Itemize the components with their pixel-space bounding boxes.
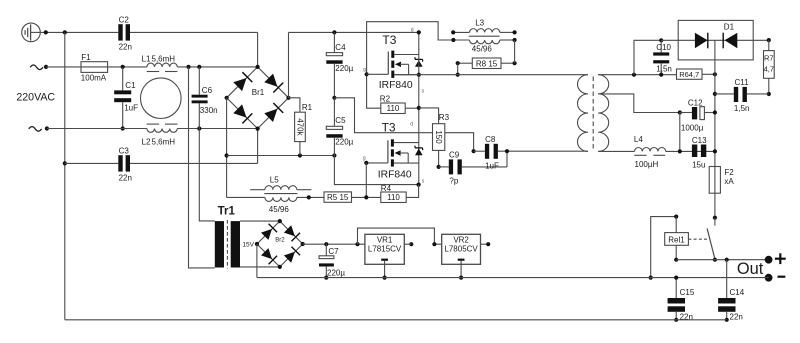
svg-text:F2: F2 [724, 168, 734, 177]
wire [418, 32, 420, 184]
node Br1 right [286, 96, 290, 100]
voltage regulator VR2 [442, 234, 481, 264]
wire [702, 73, 715, 75]
node sec-top [632, 73, 636, 77]
wire [514, 40, 516, 63]
svg-text:?p: ?p [449, 176, 458, 185]
inductor L5 upper [250, 189, 265, 191]
node C1 bottom [121, 126, 125, 130]
wire [227, 196, 265, 198]
svg-text:C6: C6 [202, 86, 213, 95]
node C10 top [659, 38, 663, 42]
svg-text:C12: C12 [688, 98, 703, 107]
svg-text:T3: T3 [382, 33, 396, 47]
relay Rel1 [675, 217, 677, 233]
wire [297, 196, 324, 198]
wire [130, 31, 258, 33]
wire [666, 150, 715, 152]
wire [65, 162, 119, 164]
node gate1 [365, 72, 369, 76]
wire [352, 196, 381, 198]
wire [634, 40, 661, 74]
node C7 top [324, 242, 328, 246]
wire [240, 220, 280, 222]
node C15 top [674, 276, 678, 280]
wire [256, 244, 258, 278]
transistor T3 lower source lead [394, 162, 419, 164]
node L3 low-right [513, 38, 517, 42]
node C13 left [678, 149, 682, 153]
svg-text:F1: F1 [81, 53, 91, 62]
node VR2 out [486, 242, 490, 246]
earth terminal [22, 23, 41, 42]
svg-text:C2: C2 [119, 16, 130, 25]
svg-text:L7805CV: L7805CV [444, 245, 478, 254]
wire [676, 259, 768, 261]
node R5-R4 [364, 195, 368, 199]
svg-text:C13: C13 [692, 136, 707, 145]
node R8 right [513, 61, 517, 65]
wire [303, 243, 365, 245]
diode Br2 NW [261, 229, 272, 240]
AC input terminal 2 [29, 127, 42, 132]
inductor L5 lower [265, 197, 297, 201]
svg-text:IRF840: IRF840 [378, 170, 412, 181]
node C7 bottom [324, 276, 328, 280]
node C14 top [725, 258, 729, 262]
inductor L4 [635, 147, 666, 151]
inductor L3 core [469, 35, 500, 37]
svg-text:VR1: VR1 [377, 235, 393, 244]
node L3 up-right [513, 30, 517, 34]
node half-bridge cap midpoint [332, 96, 336, 100]
node C12 right [713, 110, 717, 114]
node switch top [713, 216, 717, 220]
fuse F2 [709, 167, 720, 194]
diode D1a [695, 33, 708, 49]
node VR1 out [409, 242, 413, 246]
transistor T3 lower arrow [395, 150, 401, 155]
wire [365, 163, 367, 198]
wire [65, 319, 727, 321]
transistor T3 upper arrow [395, 62, 401, 67]
svg-text:L2: L2 [142, 138, 151, 147]
resistor R7 [768, 40, 770, 51]
node source2 [417, 183, 421, 187]
capacitor C4 [333, 32, 335, 52]
node L3 up-left [451, 30, 455, 34]
node VR1 gnd [383, 276, 387, 280]
svg-text:C5: C5 [335, 116, 346, 125]
svg-text:Out: Out [737, 260, 764, 278]
wire [257, 129, 259, 164]
svg-text:R64,7: R64,7 [679, 70, 699, 79]
diode Br1 NW [233, 78, 246, 91]
transformer core [592, 77, 594, 151]
capacitor C2 [118, 24, 122, 40]
svg-text:22n: 22n [119, 42, 132, 51]
svg-text:L1: L1 [142, 55, 151, 64]
bridge rectifier Br1 frame [227, 67, 289, 129]
svg-text:C7: C7 [328, 247, 339, 256]
inductor L2 [147, 129, 177, 133]
wire [462, 166, 507, 168]
svg-text:T3: T3 [382, 120, 396, 134]
transistor T3 upper drain lead [394, 54, 419, 56]
node R7 bottom [767, 92, 771, 96]
node C11 left [713, 92, 717, 96]
wire [481, 243, 489, 245]
node C4 top [332, 30, 336, 34]
node Rel1 bottom [674, 258, 678, 262]
svg-text:D1: D1 [724, 23, 735, 32]
node gate2 [364, 161, 368, 165]
wire [288, 32, 290, 97]
output terminal minus [765, 274, 773, 282]
node L3 low-left [451, 38, 455, 42]
node Br2 top [278, 219, 282, 223]
svg-text:R3: R3 [439, 113, 450, 122]
wire [227, 155, 335, 157]
diode Br1 NE [264, 74, 277, 87]
svg-text:C11: C11 [735, 78, 750, 87]
wire [506, 151, 508, 167]
svg-text:g: g [363, 67, 366, 73]
svg-text:Tr1: Tr1 [218, 206, 236, 218]
capacitor C9 [449, 159, 453, 174]
svg-text:VR2: VR2 [453, 235, 469, 244]
svg-text:L7815CV: L7815CV [368, 245, 402, 254]
node minus-tap [225, 153, 229, 157]
fuse F1 [81, 62, 108, 73]
svg-text:220µ: 220µ [335, 64, 353, 73]
svg-text:d: d [410, 121, 413, 127]
wire [64, 32, 66, 319]
transistor T3 upper channel [391, 51, 394, 58]
wire [199, 129, 215, 221]
wire [747, 93, 769, 95]
node VR2 gnd [459, 276, 463, 280]
svg-text:22n: 22n [119, 173, 132, 182]
resistor R5 [324, 192, 352, 202]
diode Br2 NE [284, 225, 295, 236]
wire [358, 228, 442, 244]
svg-text:L4: L4 [634, 135, 643, 144]
svg-text:110: 110 [387, 193, 400, 202]
node C12 left [678, 110, 682, 114]
node Br1 bottom [256, 127, 260, 131]
inductor L3 upper [453, 31, 469, 33]
svg-text:100µH: 100µH [635, 160, 659, 169]
node C15 bottom [674, 318, 678, 322]
wire [661, 39, 695, 41]
choke core [141, 78, 182, 119]
capacitor C5 [333, 98, 335, 127]
node source1 [417, 73, 421, 77]
svg-text:15V: 15V [242, 242, 254, 249]
node VR1 in [355, 242, 359, 246]
inductor L1 [147, 63, 177, 67]
node C5 minus [332, 153, 336, 157]
svg-text:R5 15: R5 15 [327, 193, 349, 202]
svg-text:1,5n: 1,5n [734, 104, 750, 113]
wire [474, 150, 485, 152]
node Br2 right [301, 242, 305, 246]
node C10 bottom [659, 73, 663, 77]
capacitor C7 [325, 244, 327, 256]
wire [334, 138, 418, 185]
transistor T3 lower channel [391, 139, 394, 146]
capacitor C13 [692, 145, 697, 158]
voltage regulator VR1 [365, 234, 404, 264]
svg-text:220µ: 220µ [327, 268, 345, 277]
svg-text:1uF: 1uF [124, 104, 138, 113]
AC input terminal 1 [30, 65, 43, 70]
wire [289, 31, 419, 33]
transformer Tr1 [215, 221, 224, 267]
body diode upper [415, 58, 423, 60]
capacitor C3 [118, 155, 122, 171]
wire [40, 31, 118, 33]
diode D1b [725, 33, 738, 49]
svg-text:1000µ: 1000µ [681, 124, 704, 133]
capacitor C10 [660, 40, 662, 52]
svg-text:470k: 470k [295, 118, 304, 136]
transistor T3 lower gate [366, 162, 388, 164]
wire [715, 93, 734, 95]
wire [226, 98, 228, 198]
svg-text:Rel1: Rel1 [668, 235, 685, 244]
capacitor C12 [692, 107, 697, 119]
transformer primary [578, 75, 589, 152]
wire [498, 150, 588, 152]
svg-text:C3: C3 [119, 147, 130, 156]
transistor T3 upper gate [367, 73, 389, 75]
svg-text:330n: 330n [200, 106, 218, 115]
wire [679, 113, 681, 152]
node C6 top [197, 65, 201, 69]
wire [257, 277, 769, 279]
capacitor C15 [675, 278, 677, 298]
wire [177, 128, 257, 130]
node C13 right [713, 149, 717, 153]
svg-text:R2: R2 [380, 95, 391, 104]
svg-text:45/96: 45/96 [472, 44, 493, 53]
node rail-Rel1 [649, 276, 653, 280]
resistor R1 [289, 98, 300, 112]
transistor T3 upper source lead [394, 74, 419, 76]
switch blade [714, 218, 716, 226]
node R1 bottom [298, 153, 302, 157]
svg-text:C1: C1 [125, 81, 136, 90]
node R8 left [456, 61, 460, 65]
node C14 bottom [725, 318, 729, 322]
svg-text:C8: C8 [485, 135, 496, 144]
svg-text:L3: L3 [475, 19, 484, 28]
capacitor C8 [485, 144, 489, 159]
wire [501, 62, 515, 64]
svg-text:R7: R7 [764, 54, 774, 63]
svg-text:220µ: 220µ [335, 138, 353, 147]
svg-text:C10: C10 [656, 43, 671, 52]
resistor R3 [419, 108, 439, 124]
svg-text:C9: C9 [449, 151, 460, 160]
wire [240, 266, 280, 268]
node earth-down [63, 161, 67, 165]
diode Br2 SE [284, 252, 295, 263]
svg-text:110: 110 [387, 104, 400, 113]
svg-text:45/96: 45/96 [269, 205, 290, 214]
svg-text:Br2: Br2 [275, 237, 285, 243]
node R6 right [713, 72, 717, 76]
node Rel1 top [674, 215, 678, 219]
dual diode D1 box [678, 20, 753, 60]
inductor L5 core [264, 193, 297, 195]
node top-left junction [63, 30, 67, 34]
node switch bottom [713, 258, 717, 262]
wire [189, 67, 215, 268]
svg-text:C14: C14 [730, 288, 745, 297]
node Br1 left [225, 96, 229, 100]
node R3 bottom [437, 165, 441, 169]
svg-text:d: d [411, 27, 414, 33]
wire [651, 217, 677, 278]
wire [598, 74, 676, 76]
node Br2 left [255, 242, 259, 246]
diode Br1 SW [233, 104, 246, 117]
wire [695, 39, 769, 41]
wire [404, 243, 411, 245]
capacitor C1 [122, 67, 124, 91]
wire [457, 63, 459, 74]
svg-text:R1: R1 [302, 103, 313, 112]
bridge rectifier Br2 frame [257, 221, 303, 267]
svg-text:100mA: 100mA [81, 74, 107, 83]
transistor T3 lower drain lead [394, 142, 419, 144]
node Br1 top [256, 65, 260, 69]
capacitor C6 [198, 67, 200, 95]
svg-text:IRF840: IRF840 [379, 80, 413, 91]
node rail-R8 [456, 73, 460, 77]
node C8 right [505, 149, 509, 153]
wire [47, 128, 147, 130]
node VR2 in [432, 242, 436, 246]
node C1 top [121, 65, 125, 69]
svg-text:Br1: Br1 [252, 88, 265, 97]
wire [334, 98, 473, 151]
wire [177, 66, 257, 68]
svg-text:R8 15: R8 15 [476, 59, 498, 68]
capacitor C14 [726, 260, 728, 298]
svg-text:4,7: 4,7 [764, 65, 774, 74]
svg-text:C4: C4 [335, 43, 346, 52]
svg-text:g: g [363, 155, 366, 161]
svg-text:xA: xA [724, 177, 734, 186]
node L1 out [186, 65, 190, 69]
wire [458, 62, 473, 64]
node L5 out [307, 195, 311, 199]
wire [680, 112, 692, 114]
svg-text:15u: 15u [692, 160, 705, 169]
wire [367, 22, 454, 109]
svg-text:1,5n: 1,5n [656, 65, 672, 74]
node C8 left [472, 149, 476, 153]
svg-text:150: 150 [434, 130, 443, 144]
node R2-R3 [417, 106, 421, 110]
wire [394, 74, 588, 76]
diode Br1 SE [264, 109, 277, 122]
svg-text:22n: 22n [730, 312, 743, 321]
wire [257, 32, 259, 67]
wire [598, 150, 634, 152]
wire [439, 166, 449, 168]
node D1 out [767, 38, 771, 42]
output terminal plus [765, 256, 773, 264]
transformer secondary [598, 75, 609, 152]
svg-text:1uF: 1uF [485, 161, 499, 170]
resistor R8 [472, 58, 501, 69]
wire [130, 162, 258, 164]
resistor R6 [677, 69, 703, 79]
svg-text:5,6mH: 5,6mH [152, 138, 176, 147]
wire [598, 94, 680, 113]
capacitor C11 [734, 87, 738, 102]
node Br2 bottom [278, 265, 282, 269]
body diode lower [415, 147, 423, 149]
svg-text:5,6mH: 5,6mH [152, 55, 176, 64]
node C6 bottom [197, 126, 201, 130]
svg-text:220VAC: 220VAC [16, 91, 55, 103]
svg-text:L5: L5 [270, 175, 279, 184]
inductor L3 lower [453, 39, 469, 41]
wire [46, 66, 147, 68]
diode Br2 SW [261, 248, 272, 259]
svg-text:C15: C15 [680, 288, 695, 297]
node drain1 [417, 30, 421, 34]
wire [714, 40, 716, 217]
node earth-wire [44, 30, 48, 34]
